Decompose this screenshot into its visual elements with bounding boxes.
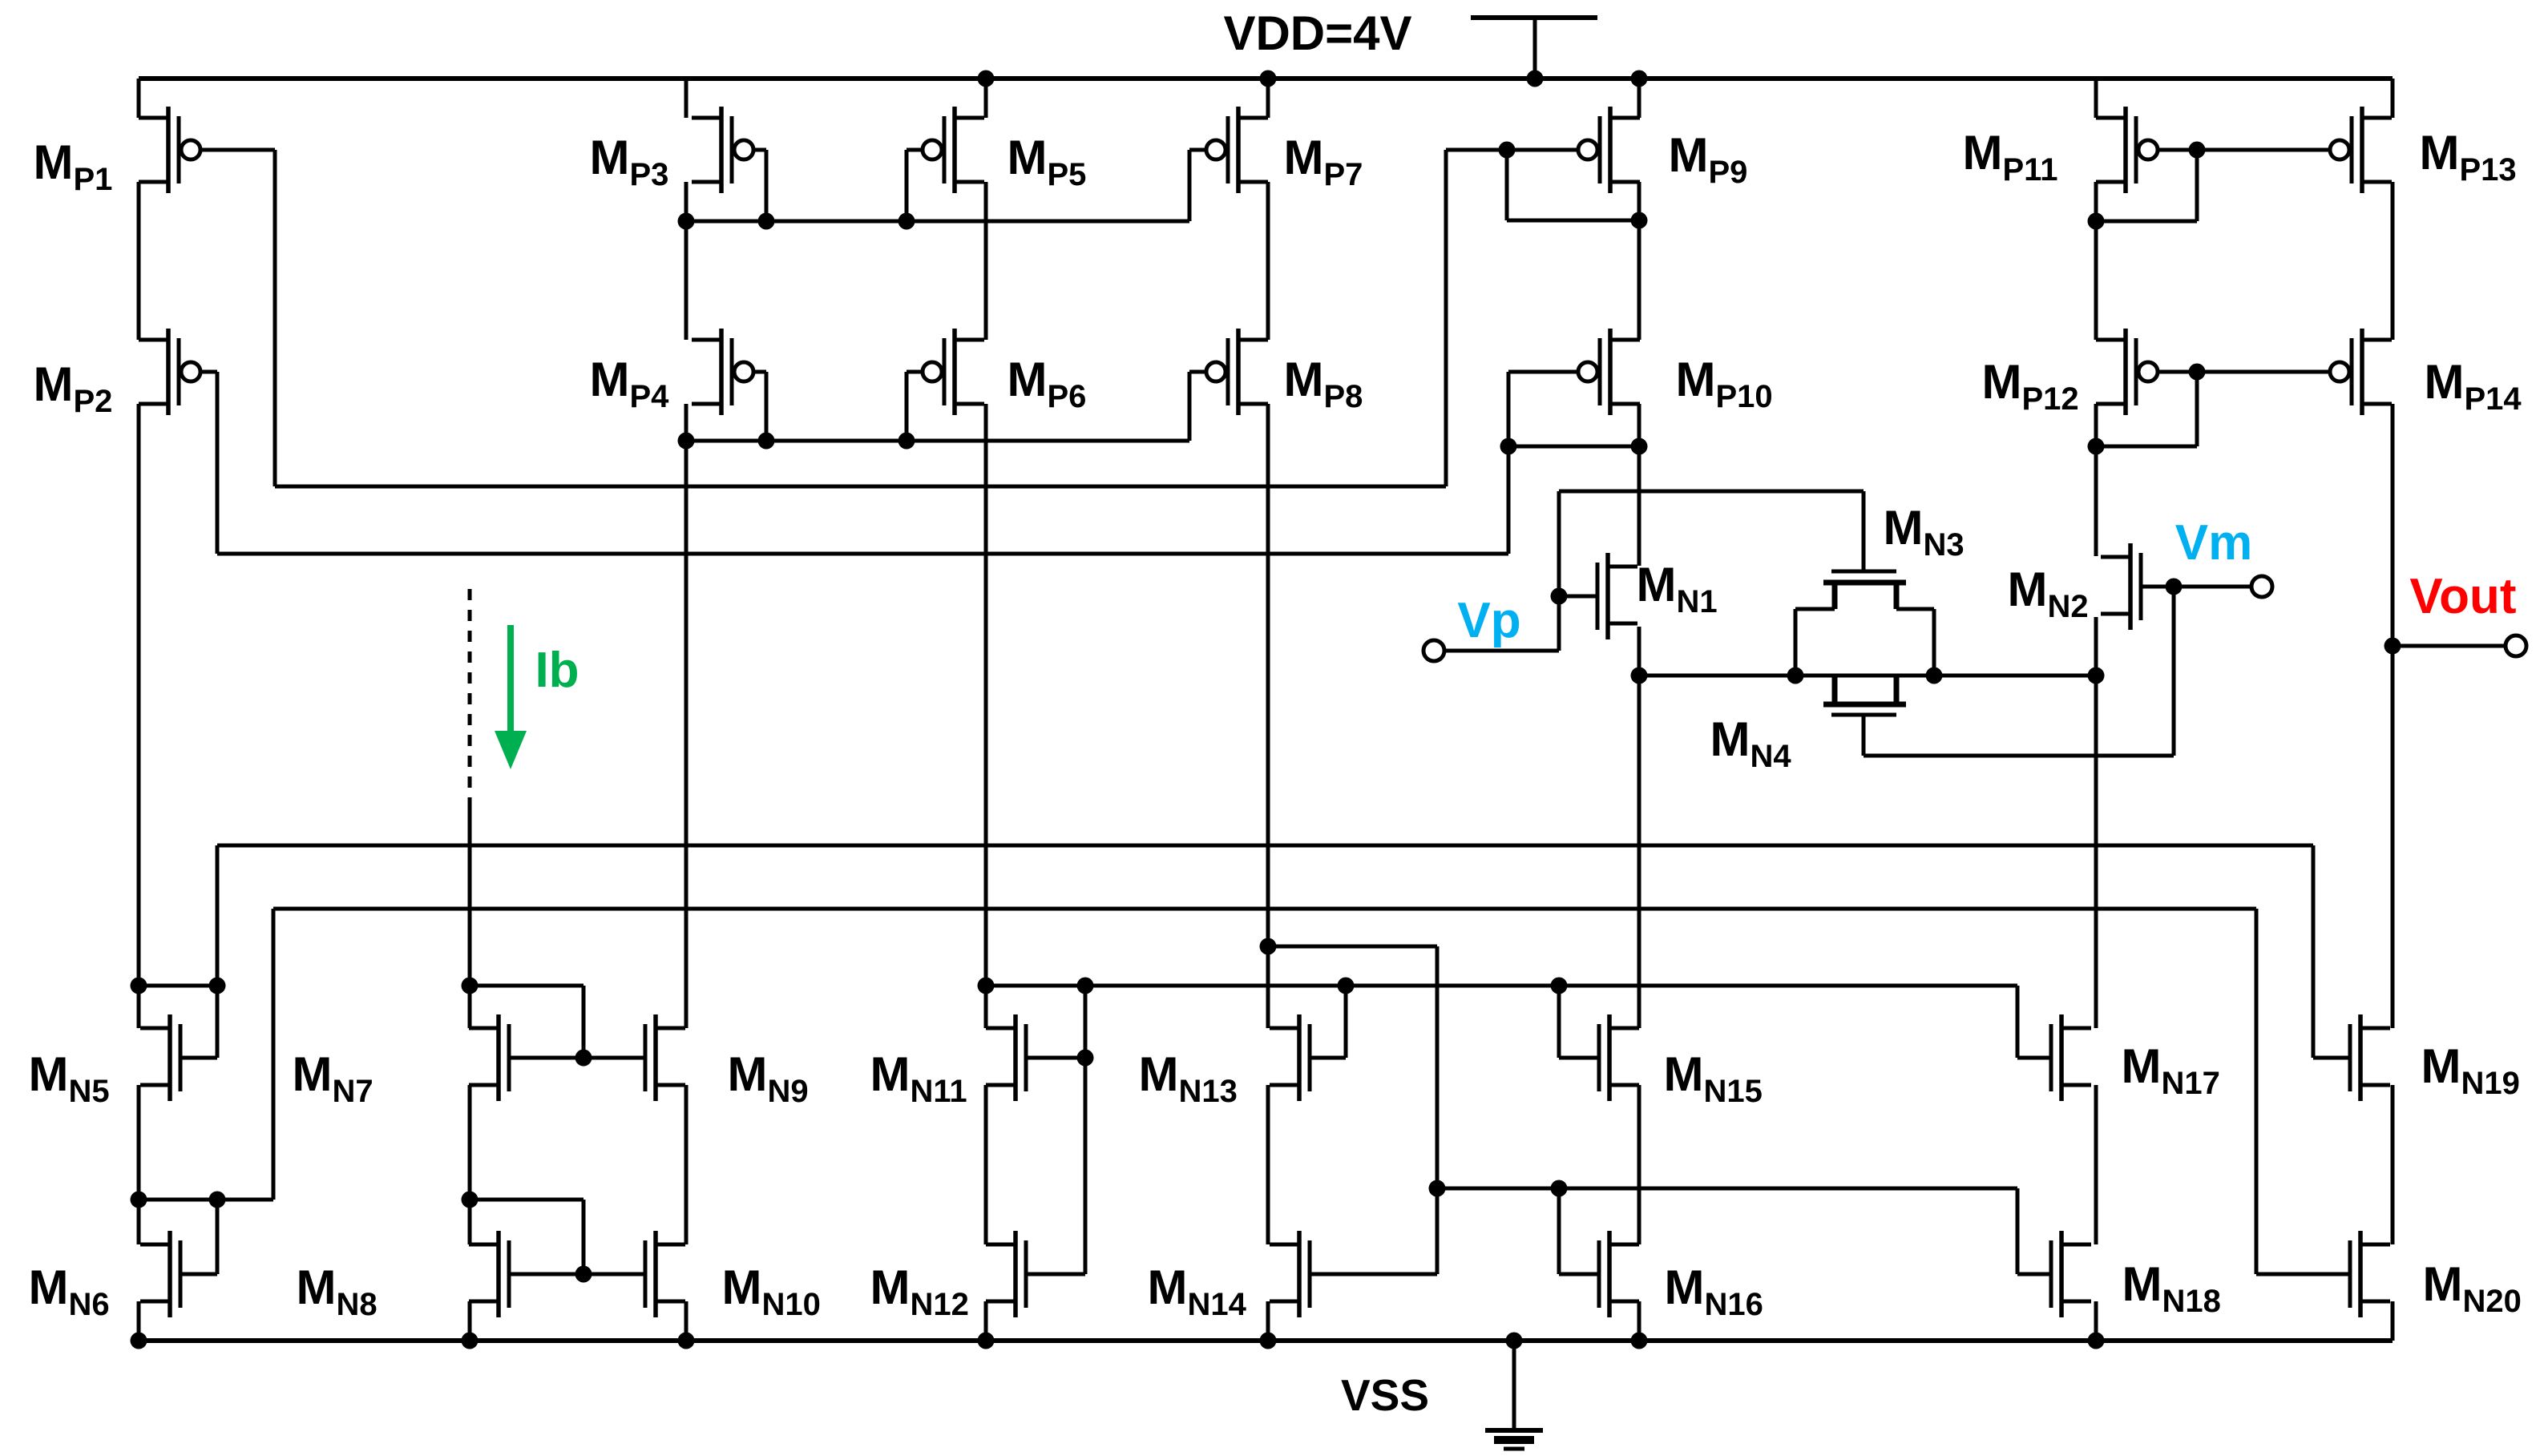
transistor MN20 (NMOS) bbox=[2350, 1231, 2390, 1317]
wire MP6 gate down bbox=[905, 372, 909, 441]
wire node A horizontal bbox=[275, 485, 1446, 489]
junction MP9 drain node bbox=[1631, 212, 1648, 229]
wire MN10 source to rail bbox=[684, 1301, 688, 1341]
transistor MP8 (PMOS) bbox=[1206, 329, 1268, 415]
junction rail VSS bbox=[1506, 1333, 1523, 1349]
junction MN13 gate tie bbox=[1338, 978, 1355, 994]
junction MP3 gate tie bbox=[758, 213, 775, 230]
junction rail VDD bbox=[1527, 71, 1544, 87]
wire MP8 gate bbox=[1189, 370, 1207, 374]
wire node A up to MP9 gate bbox=[1444, 150, 1448, 486]
ground symbol bar 2 bbox=[1494, 1436, 1534, 1444]
wire MP4 gate bbox=[754, 370, 766, 374]
transistor MP9 (PMOS) bbox=[1578, 107, 1640, 193]
wire MN2 gate bbox=[2141, 585, 2251, 589]
wire MN8-MN10 gate bbox=[509, 1272, 645, 1277]
junction cross right bbox=[1926, 668, 1943, 684]
svg-text:VDD=4V: VDD=4V bbox=[1223, 6, 1411, 60]
wire MN1 gate up bbox=[1557, 491, 1561, 596]
wire node B up to MP10 node bbox=[1507, 446, 1511, 554]
wire MN9 source to MN10 bbox=[684, 1085, 688, 1244]
junction rail MN10 bbox=[678, 1333, 695, 1349]
junction MN11 gate bbox=[1077, 1050, 1094, 1067]
junction MN6 gate node bbox=[209, 1192, 226, 1208]
wire cross right terminal bbox=[1932, 609, 1936, 676]
transistor MP4 (PMOS) bbox=[692, 329, 753, 415]
wire MP10 gate bbox=[1508, 370, 1578, 374]
transistor MP12 (PMOS) bbox=[2096, 329, 2158, 415]
wire Ib to MN7 drain bbox=[468, 797, 472, 1028]
svg-text:Vm: Vm bbox=[2175, 515, 2252, 571]
svg-text:Vout: Vout bbox=[2409, 569, 2516, 624]
transistor MN10 (NMOS) bbox=[645, 1231, 685, 1317]
wire tail node down to MN15 bbox=[1637, 676, 1641, 1028]
wire MN11/12 gate tie bbox=[1084, 986, 1088, 1274]
wire MN16 gate up bbox=[1557, 1188, 1561, 1274]
wire cross left terminal bbox=[1794, 609, 1798, 676]
wire MP2 drain down bbox=[137, 404, 141, 1028]
wire node B horizontal bbox=[217, 552, 1508, 556]
wire MN7 drain link bbox=[470, 984, 584, 988]
wire MN1 gate bbox=[1559, 595, 1597, 599]
wire MN6 drain link bbox=[139, 1198, 273, 1202]
wire MN16 gate bbox=[1559, 1272, 1599, 1277]
wire tail node down to MN17 bbox=[2094, 676, 2098, 1028]
wire MP7 gate bbox=[1189, 148, 1207, 152]
wire bus2 drop bbox=[272, 909, 276, 1200]
ground symbol bar 3 bbox=[1504, 1447, 1524, 1451]
transistor MP7 (PMOS) bbox=[1206, 107, 1268, 193]
wire MN19 gate bbox=[2313, 1056, 2350, 1060]
wire MN12 source to rail bbox=[984, 1301, 988, 1341]
wire tail node line bbox=[1639, 674, 2096, 678]
wire MN18 gate up bbox=[2016, 1188, 2020, 1274]
junction MN11 drain bbox=[978, 978, 995, 994]
junction MN1 gate bbox=[1551, 588, 1568, 605]
current arrow Ib bbox=[495, 625, 527, 769]
wire MP3 gate down bbox=[765, 150, 769, 221]
supply symbol VDD bar bbox=[1471, 15, 1597, 20]
junction MN8 drain bbox=[462, 1192, 479, 1208]
wire MP4 gate down bbox=[765, 372, 769, 441]
junction Vout bbox=[2384, 638, 2401, 655]
wire MP12 gate to MP14 gate bbox=[2158, 370, 2329, 374]
wire MP9 gate-drain link h bbox=[1507, 219, 1639, 223]
wire MN7 source to node bbox=[468, 1085, 472, 1244]
junction MN16 gate tap bbox=[1551, 1180, 1568, 1197]
wire MN1 source to tail node bbox=[1637, 627, 1641, 676]
junction rail MN12 bbox=[978, 1333, 995, 1349]
wire MN6 gate up bbox=[216, 1200, 220, 1274]
wire MN19 gate up (bus1 end) bbox=[2312, 845, 2316, 1058]
junction MP6 gate tie bbox=[898, 433, 915, 450]
junction MP4 drain node bbox=[678, 433, 695, 450]
junction cross left bbox=[1787, 668, 1804, 684]
power rail VDD (top) bbox=[139, 76, 2393, 81]
wire MN20 gate bbox=[2256, 1272, 2350, 1277]
terminal Vout bbox=[2506, 635, 2526, 656]
junction MP9 gate node bbox=[1499, 142, 1516, 159]
wire MP3 gate bbox=[754, 148, 766, 152]
wire MN18 gate bbox=[2017, 1272, 2051, 1277]
wire MN18 source to rail bbox=[2094, 1301, 2098, 1341]
junction rail MP5 bbox=[978, 71, 995, 87]
junction rail MP9 bbox=[1631, 71, 1648, 87]
wire MN20 gate up (bus2 end) bbox=[2255, 909, 2259, 1274]
supply symbol VDD stem bbox=[1533, 18, 1537, 79]
junction MN13 drain bbox=[1260, 938, 1277, 955]
wire MP12 gate-drain link v bbox=[2195, 372, 2199, 446]
transistor MP3 (PMOS) bbox=[692, 107, 753, 193]
wire MN16 source to rail bbox=[1637, 1301, 1641, 1341]
junction MN11 gate node bbox=[1077, 978, 1094, 994]
junction MP10 drain tie bbox=[1631, 438, 1648, 455]
junction MN7 gate tie bbox=[575, 1050, 592, 1067]
wire MP9 gate-drain link v bbox=[1505, 150, 1509, 220]
junction MP12 drain node bbox=[2088, 438, 2105, 455]
wire MP11 gate-drain link v bbox=[2195, 150, 2199, 221]
wire MN15 gate up bbox=[1557, 986, 1561, 1058]
transistor MN17 (NMOS) bbox=[2051, 1014, 2091, 1101]
junction rail MN8 bbox=[462, 1333, 479, 1349]
wire MP12 drain to MN2 drain bbox=[2094, 404, 2098, 556]
wire MP6 gate bbox=[907, 370, 923, 374]
wire node A vertical bbox=[273, 150, 277, 486]
junction Vm node bbox=[2166, 579, 2183, 595]
transistor MN8 (NMOS) bbox=[469, 1231, 509, 1317]
junction MP5 gate tie bbox=[898, 213, 915, 230]
wire MN14 source to rail bbox=[1266, 1301, 1270, 1341]
wire MN20 source to rail bbox=[2391, 1301, 2395, 1341]
wire MP8 gate down bbox=[1188, 372, 1192, 441]
wire MP14 drain down to Vout node bbox=[2391, 404, 2395, 646]
transistor MN1 (NMOS) bbox=[1597, 553, 1637, 639]
junction G1483 tap bbox=[1429, 1180, 1446, 1197]
wire MP10 drain to MN1 drain bbox=[1637, 404, 1641, 566]
wire MP6 drain down to MN11 bbox=[984, 404, 988, 1028]
wire MP4 drain node bus bbox=[686, 439, 1189, 443]
wire MN3 gate line bbox=[1559, 490, 1864, 494]
wire MN11 gate bbox=[1026, 1056, 1085, 1060]
wire MP9 drain to MP10 source bbox=[1637, 182, 1641, 340]
wire MP1 drain to MP2 source bbox=[137, 182, 141, 340]
wire MN7 gate up bbox=[582, 986, 586, 1058]
junction MP3 drain node bbox=[678, 213, 695, 230]
transistor MN12 (NMOS) bbox=[986, 1231, 1026, 1317]
junction MN5 drain bbox=[131, 978, 147, 994]
transistor MP10 (PMOS) bbox=[1578, 329, 1640, 415]
wire MP1 source to rail bbox=[137, 79, 141, 118]
wire MN11 drain node line bbox=[986, 984, 2017, 988]
ground symbol bar 1 bbox=[1485, 1428, 1543, 1433]
wire MP5 drain to MP6 source bbox=[984, 182, 988, 340]
transistor MN14 (NMOS) bbox=[1270, 1231, 1310, 1317]
wire MP12 drain node bbox=[2096, 445, 2197, 449]
wire MN13 drain down bbox=[1436, 946, 1440, 1274]
junction MN8 gate tie bbox=[575, 1266, 592, 1283]
wire MP9 source to rail bbox=[1637, 79, 1641, 118]
transistor MN18 (NMOS) bbox=[2051, 1231, 2091, 1317]
junction tail MN2 bbox=[2088, 668, 2105, 684]
wire MN17 gate bbox=[2017, 1056, 2051, 1060]
ground symbol stem bbox=[1512, 1341, 1516, 1430]
wire MN6 source to rail bbox=[137, 1301, 141, 1341]
junction rail MN6 bbox=[131, 1333, 147, 1349]
wire MP11 source to rail bbox=[2094, 79, 2098, 118]
wire MP3 source to rail bbox=[684, 79, 688, 118]
transistor MN4 (NMOS, pass) bbox=[1823, 676, 1906, 715]
wire MN6 gate bbox=[180, 1272, 217, 1277]
junction MN15 gate tie bbox=[1551, 978, 1568, 994]
transistor MN3 (NMOS, pass) bbox=[1795, 571, 1934, 609]
wire MN5 gate up / bus1 tap bbox=[216, 845, 220, 1058]
junction tail MN1 bbox=[1631, 668, 1648, 684]
junction MN7 drain bbox=[462, 978, 479, 994]
wire MP9 gate bbox=[1446, 148, 1578, 152]
transistor MN6 (NMOS) bbox=[140, 1231, 180, 1317]
terminal Vp bbox=[1423, 640, 1444, 661]
wire MN2 source to tail node bbox=[2094, 617, 2098, 676]
junction MP12 gate node bbox=[2189, 364, 2206, 381]
transistor MN19 (NMOS) bbox=[2350, 1014, 2390, 1101]
wire MN7-MN9 gate bbox=[509, 1056, 645, 1060]
wire MN4 gate down bbox=[1862, 716, 1866, 756]
wire MP7 drain to MP8 source bbox=[1266, 182, 1270, 340]
power rail VSS (bottom) bbox=[139, 1338, 2393, 1343]
wire MN19 source to MN20 bbox=[2391, 1085, 2395, 1244]
transistor MP1 (PMOS) bbox=[139, 107, 200, 193]
wire MP5 gate down bbox=[905, 150, 909, 221]
transistor MP13 (PMOS) bbox=[2330, 107, 2392, 193]
wire Vout branch bbox=[2393, 644, 2506, 648]
transistor MP6 (PMOS) bbox=[923, 329, 984, 415]
wire Vp up to MN1 gate bbox=[1557, 596, 1561, 651]
junction MN5 gate node bbox=[209, 978, 226, 994]
svg-text:VSS: VSS bbox=[1341, 1370, 1429, 1420]
svg-text:Vp: Vp bbox=[1457, 593, 1520, 648]
wire MN4 gate line bbox=[1864, 754, 2174, 758]
wire MN8 drain link bbox=[470, 1198, 584, 1202]
junction MP11 gate node bbox=[2189, 142, 2206, 159]
junction rail MP7 bbox=[1260, 71, 1277, 87]
wire MN8 gate up bbox=[582, 1200, 586, 1274]
wire MP10 drain node bbox=[1508, 445, 1639, 449]
wire MP2 gate bbox=[201, 370, 217, 374]
wire MN12 gate bbox=[1026, 1272, 1085, 1277]
junction rail MN18 bbox=[2088, 1333, 2105, 1349]
wire Vp bbox=[1444, 649, 1559, 653]
junction MP11 drain node bbox=[2088, 213, 2105, 230]
svg-text:Ib: Ib bbox=[535, 643, 579, 698]
wire MN5 gate bbox=[180, 1056, 217, 1060]
junction MP4 gate tie bbox=[758, 433, 775, 450]
transistor MN9 (NMOS) bbox=[645, 1014, 685, 1101]
transistor MP14 (PMOS) bbox=[2330, 329, 2392, 415]
wire MN5 drain link bbox=[139, 984, 217, 988]
wire MP8 drain down to MN13 bbox=[1266, 404, 1270, 1028]
wire Vout node down to MN19 bbox=[2391, 646, 2395, 1028]
wire MN13 gate up bbox=[1344, 986, 1348, 1058]
transistor MN7 (NMOS) bbox=[469, 1014, 509, 1101]
wire MN8 source to rail bbox=[468, 1301, 472, 1341]
wire MP5 source to rail bbox=[984, 79, 988, 118]
junction MN6 drain bbox=[131, 1192, 147, 1208]
transistor MN15 (NMOS) bbox=[1599, 1014, 1639, 1101]
transistor MN2 (NMOS) bbox=[2101, 543, 2141, 630]
wire MP13 source to rail bbox=[2391, 79, 2395, 118]
transistor MN11 (NMOS) bbox=[986, 1014, 1026, 1101]
wire Ib node (dashed) bbox=[468, 589, 472, 797]
wire MN14 gate bbox=[1310, 1272, 1437, 1277]
transistor MN5 (NMOS) bbox=[140, 1014, 180, 1101]
wire MP3 drain to MP4 source bbox=[684, 182, 688, 340]
wire MP13 drain to MP14 source bbox=[2391, 182, 2395, 340]
wire MP11 gate to MP13 gate bbox=[2158, 148, 2329, 152]
wire MN17 gate up bbox=[2016, 986, 2020, 1058]
wire MN13 source to MN14 bbox=[1266, 1085, 1270, 1244]
transistor MN16 (NMOS) bbox=[1599, 1231, 1639, 1317]
wire node B vertical bbox=[216, 372, 220, 554]
wire MP4 drain down to MN9 bbox=[684, 404, 688, 1028]
junction rail MN14 bbox=[1260, 1333, 1277, 1349]
wire MN3 gate down bbox=[1862, 491, 1866, 570]
terminal Vm bbox=[2251, 576, 2272, 597]
wire MN15 gate bbox=[1559, 1056, 1599, 1060]
wire MN13 drain link bbox=[1268, 945, 1437, 949]
wire MP3 drain node bus bbox=[686, 220, 1189, 224]
wire gate bus 2 bbox=[273, 907, 2256, 911]
wire MP1 gate bbox=[201, 148, 275, 152]
wire MN13 gate bbox=[1310, 1056, 1346, 1060]
wire MN5 source to node bbox=[137, 1085, 141, 1244]
wire MN4 gate up to Vm bbox=[2172, 587, 2176, 756]
wire MN17 source to MN18 bbox=[2094, 1085, 2098, 1244]
transistor MP2 (PMOS) bbox=[139, 329, 200, 415]
wire MP11 drain node bbox=[2096, 220, 2197, 224]
wire MP11 drain to MP12 source bbox=[2094, 182, 2098, 340]
wire MP5 gate bbox=[907, 148, 923, 152]
wire MP7 source to rail bbox=[1266, 79, 1270, 118]
wire MN11 source to MN12 bbox=[984, 1085, 988, 1244]
wire MP10 gate down bbox=[1507, 372, 1511, 446]
wire gate line MN16/MN18 bbox=[1437, 1187, 2017, 1191]
junction rail MN16 bbox=[1631, 1333, 1648, 1349]
junction MP10 gate node bbox=[1500, 438, 1517, 455]
wire MP7 gate down bbox=[1188, 150, 1192, 221]
transistor MN13 (NMOS) bbox=[1270, 1014, 1310, 1101]
transistor MP5 (PMOS) bbox=[923, 107, 984, 193]
wire gate bus 1 bbox=[217, 844, 2313, 848]
transistor MP11 (PMOS) bbox=[2096, 107, 2158, 193]
wire MN15 source to MN16 bbox=[1637, 1085, 1641, 1244]
